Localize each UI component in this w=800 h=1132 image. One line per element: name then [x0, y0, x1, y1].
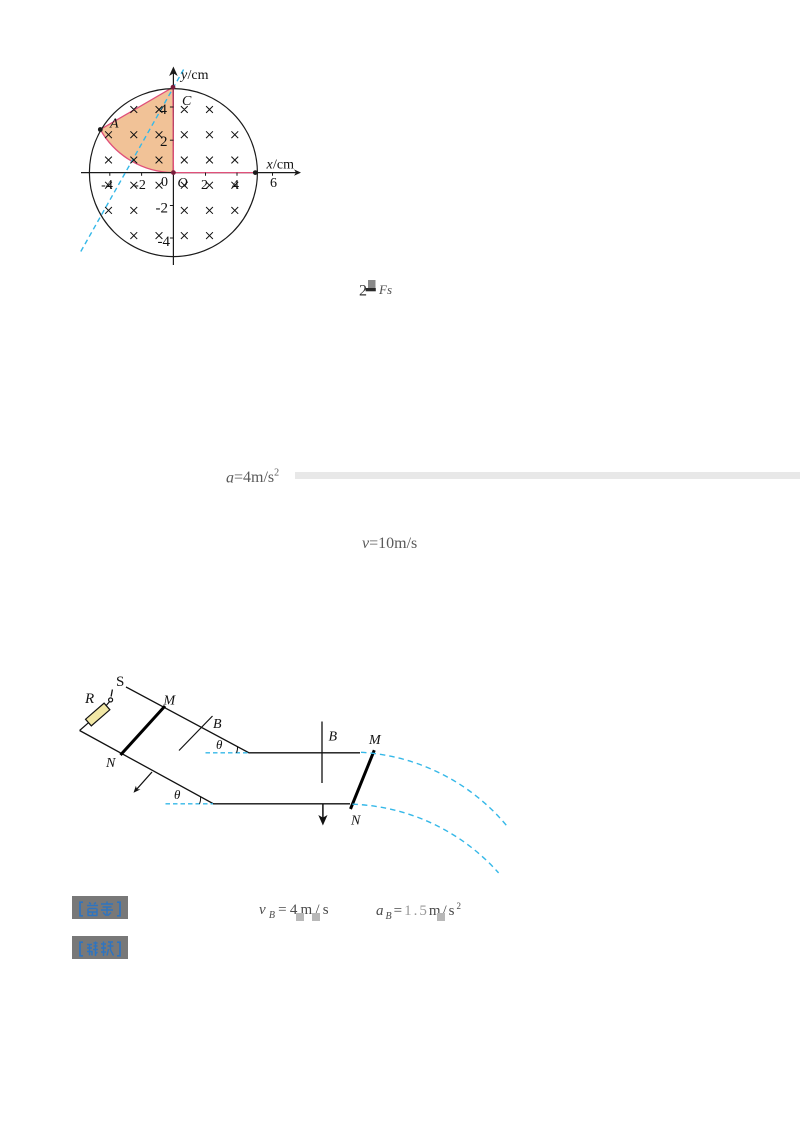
y axis arrowhead	[169, 67, 178, 77]
svg-text:B: B	[329, 730, 338, 745]
rod MN on incline	[121, 706, 166, 755]
faint formula aB = 15 m/s^2	[376, 901, 463, 922]
field circle	[89, 89, 257, 257]
svg-text:6: 6	[270, 176, 277, 191]
x marks grid	[105, 106, 238, 239]
svg-text:4: 4	[160, 102, 168, 118]
theta dashes bottom	[166, 803, 214, 805]
bottom rail incline + horizontal	[80, 731, 350, 804]
vertical B line	[321, 722, 323, 784]
diagram D1: charged particle in magnetic field region	[64, 56, 312, 272]
switch circle	[109, 698, 113, 702]
svg-text:O: O	[178, 176, 188, 191]
theta dashes top	[206, 752, 249, 754]
svg-text:2: 2	[201, 178, 208, 193]
cyan dashed line through top point	[81, 69, 184, 252]
trajectory curves	[361, 752, 508, 827]
svg-text:A: A	[109, 117, 119, 132]
faint formula v = 10 m/s	[362, 535, 442, 557]
svg-text:θ: θ	[174, 787, 181, 802]
node A dot	[98, 127, 103, 132]
axis tick marks	[110, 107, 273, 238]
svg-text:θ: θ	[216, 737, 223, 752]
B slash on incline	[179, 716, 213, 751]
node O origin dot	[171, 170, 176, 175]
velocity arrow	[136, 772, 152, 790]
svg-text:-2: -2	[134, 178, 146, 193]
svg-text:-2: -2	[156, 201, 169, 217]
white panel	[64, 56, 312, 272]
x axis arrowhead	[294, 169, 301, 175]
svg-text:C: C	[182, 94, 192, 109]
node at circle top on y-axis	[171, 85, 176, 90]
blue label 2 : analysis tag	[72, 936, 128, 959]
shaded sector region	[100, 87, 173, 172]
axis labels	[101, 68, 294, 250]
faint text fragment line 1	[348, 274, 408, 302]
down arrow	[322, 805, 324, 820]
svg-text:/cm: /cm	[188, 68, 209, 83]
wire switch to resistor	[106, 702, 110, 707]
angle arc bottom	[200, 797, 201, 804]
svg-text:M: M	[368, 733, 382, 748]
svg-text:/cm: /cm	[273, 158, 294, 173]
svg-text:-4: -4	[158, 234, 171, 250]
pink segment O to top point	[172, 87, 174, 172]
top rail incline + horizontal	[126, 687, 360, 753]
svg-text:2: 2	[160, 134, 168, 150]
rod MN horizontal section	[351, 750, 375, 809]
faint formula a = 4 m/s^2	[226, 468, 306, 490]
wire resistor to bottom rail	[80, 722, 89, 730]
labels	[84, 674, 382, 829]
svg-text:N: N	[350, 814, 361, 829]
velocity arrowhead	[134, 786, 141, 793]
svg-text:4: 4	[232, 178, 239, 193]
svg-text:0: 0	[161, 175, 168, 190]
diagram D2: inclined rails with rod and trajectories	[66, 665, 511, 880]
svg-text:Fs: Fs	[378, 282, 392, 297]
svg-text:R: R	[84, 691, 94, 707]
pink segment O to right circle edge	[173, 172, 255, 174]
down arrowhead	[318, 815, 327, 826]
faint formula vB = 4 m/s	[259, 902, 332, 921]
angle arc top	[237, 746, 238, 753]
svg-text:S: S	[116, 674, 124, 690]
switch blade	[111, 690, 112, 697]
svg-text:B: B	[213, 717, 222, 732]
x axis	[81, 172, 297, 174]
node where circle crosses positive x-axis	[253, 170, 258, 175]
faint gray bar	[295, 472, 800, 479]
svg-text:N: N	[105, 756, 116, 771]
svg-text:M: M	[163, 694, 177, 709]
svg-text:-4: -4	[101, 178, 113, 193]
blue label 1 : answer tag	[72, 896, 128, 919]
y axis	[172, 72, 174, 265]
resistor R	[86, 703, 110, 726]
